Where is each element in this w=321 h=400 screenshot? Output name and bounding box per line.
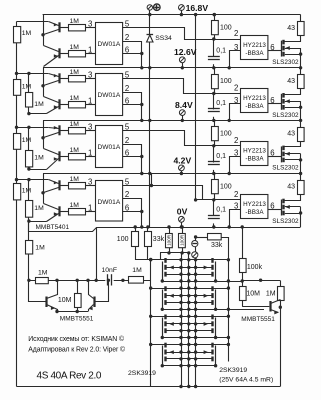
svg-text:2: 2 (234, 29, 238, 38)
resistor 1M divider2 cell2 (26, 93, 33, 108)
wire cell3 bus to next rail (300, 154, 302, 174)
transistor MMBT5401 Q1a (58, 22, 60, 32)
svg-text:3: 3 (234, 43, 238, 52)
svg-text:3: 3 (234, 96, 238, 105)
wire divider2 to 1M row (28, 222, 30, 281)
svg-text:1M: 1M (22, 30, 32, 37)
svg-text:8.4V: 8.4V (175, 100, 193, 110)
svg-text:1M: 1M (35, 245, 45, 252)
svg-text:1: 1 (88, 46, 92, 55)
wire battery stack line (149, 15, 151, 227)
svg-text:-BB3A: -BB3A (245, 209, 264, 216)
resistor 100 cell3 (214, 120, 216, 145)
op-amp U3 DW01A (96, 126, 123, 168)
svg-text:100R: 100R (167, 234, 172, 246)
svg-text:1M: 1M (70, 18, 80, 25)
transistor 2SK3919 row3 right (211, 315, 213, 320)
resistor 1M cs filter (129, 277, 144, 284)
svg-text:0V: 0V (177, 207, 188, 217)
wire DW01A4 pin5 (123, 186, 214, 200)
svg-text:4S 40A Rev 2.0: 4S 40A Rev 2.0 (37, 371, 102, 382)
svg-text:10M: 10M (246, 290, 260, 297)
capacitor 10nF (105, 276, 113, 284)
transistor 2SK3919 row1 right (211, 258, 213, 263)
transistor MMBT5401 Q3b (58, 151, 60, 161)
resistor 43 cell4 (300, 174, 302, 181)
transistor MMBT5401 Q4b (58, 206, 60, 216)
wire gate bus row 4 (162, 365, 215, 367)
transistor 2SK3919 row2 right (211, 286, 213, 291)
svg-text:2: 2 (125, 190, 129, 199)
wire HY2213 pin3 cell2 (230, 104, 241, 121)
resistor 10M right (242, 282, 244, 307)
wire B+ to node A4 (195, 15, 197, 200)
svg-text:1M: 1M (132, 267, 142, 274)
wire second divider column (28, 74, 30, 114)
resistor 100 discharge gate (136, 228, 151, 260)
op-amp U2 DW01A (96, 74, 123, 116)
transistor SLS2302 cell4 (281, 200, 283, 216)
svg-text:6: 6 (125, 204, 129, 213)
transistor 2SK3919 row2 left (164, 286, 166, 291)
resistor 33k charge-gate (194, 235, 197, 238)
transistor MMBT5551 right (242, 306, 269, 308)
wire node A4 horizontal (196, 199, 214, 201)
resistor 33k discharge gate (147, 228, 149, 260)
terminal B+ (154, 4, 161, 11)
svg-text:-BB3A: -BB3A (245, 156, 264, 163)
resistor 100R gate row b (182, 227, 184, 253)
transistor MMBT5401 Q2a (58, 73, 60, 83)
transistor MMBT5551 left (29, 281, 46, 302)
svg-text:HY2213: HY2213 (243, 95, 266, 102)
wire DW01A2 pin2/pin6 junction (123, 93, 142, 121)
wire source bus left (181, 253, 183, 387)
svg-text:6: 6 (125, 149, 129, 158)
svg-text:6: 6 (125, 97, 129, 106)
svg-text:1M: 1M (34, 155, 44, 162)
wire 4.2V to DW01A4 vcc (151, 174, 153, 186)
wire 16.8V top rail (43, 14, 301, 16)
svg-text:3: 3 (234, 202, 238, 211)
wire gate resistor bottom bus (160, 252, 189, 254)
wire 0V elbow down (96, 228, 98, 281)
wire row 3 source lead (167, 323, 212, 325)
svg-text:100: 100 (220, 25, 232, 32)
svg-text:5: 5 (125, 20, 130, 29)
svg-text:-BB3A: -BB3A (245, 50, 264, 57)
resistor 1M base Q4a (85, 185, 95, 187)
wire row 2 source lead (167, 295, 212, 297)
wire row 4 source lead (167, 352, 212, 354)
wire drain bus right (228, 261, 230, 362)
svg-text:100: 100 (117, 236, 129, 243)
wire cell1 bus to next rail (300, 48, 302, 68)
svg-text:0,1: 0,1 (216, 100, 226, 107)
svg-text:0,1: 0,1 (216, 207, 226, 214)
svg-text:2: 2 (125, 33, 129, 42)
wire cell2 bus to next rail (300, 101, 302, 120)
resistor 100R gate row a (169, 227, 171, 253)
svg-text:6: 6 (125, 46, 129, 55)
transistor MMBT5401 Q1b (58, 48, 60, 58)
svg-text:6: 6 (270, 149, 274, 158)
svg-text:SLS2302: SLS2302 (272, 165, 299, 172)
wire HY2213 pin6 cell4 (268, 209, 281, 211)
wire divider2 segment cell3 (28, 128, 30, 170)
svg-text:100: 100 (220, 130, 232, 137)
svg-text:Исходник схемы от: KSIMAN ©: Исходник схемы от: KSIMAN © (28, 335, 124, 343)
wire row 1 source lead (167, 267, 212, 269)
svg-text:1M: 1M (70, 121, 80, 128)
transistor MMBT5401 Q3a (58, 125, 60, 135)
resistor 1M cell3 divider (14, 134, 21, 150)
transistor MMBT5401 Q4a (58, 180, 60, 190)
wire HY2213 pin6 cell1 (268, 50, 281, 52)
wire collector line group 4 (43, 174, 45, 204)
resistor 43 cell1 (300, 15, 302, 22)
resistor 1M bottom left (36, 278, 49, 284)
svg-text:2SK3919: 2SK3919 (219, 367, 247, 374)
svg-text:SLS2302: SLS2302 (272, 112, 299, 119)
resistor 43 cell2 (300, 68, 302, 75)
svg-text:5: 5 (125, 71, 130, 80)
wire DW01A3 pin2/pin6 junction (123, 145, 142, 174)
svg-text:SS34: SS34 (155, 35, 172, 42)
wire source bus right (188, 253, 190, 387)
svg-text:3: 3 (88, 178, 92, 187)
balancer U8 HY2213-BB3A (214, 199, 241, 201)
svg-text:1M: 1M (22, 83, 32, 90)
svg-text:1M: 1M (70, 147, 80, 154)
svg-text:100R: 100R (180, 234, 185, 246)
svg-text:HY2213: HY2213 (243, 148, 266, 155)
op-amp U1 DW01A (96, 23, 123, 65)
wire 1M row (29, 280, 151, 282)
svg-text:10nF: 10nF (102, 267, 118, 274)
svg-text:3: 3 (88, 20, 92, 29)
wire 4.2V rail (43, 173, 301, 175)
resistor 1M base Q2b (85, 104, 95, 106)
wire left B+ sense column (16, 22, 18, 387)
svg-text:1M: 1M (70, 202, 80, 209)
resistor 1M base Q2a (85, 78, 95, 80)
terminal 12.6V (179, 57, 185, 63)
wire B- bottom (17, 386, 281, 388)
terminal 16.8V (179, 5, 185, 11)
svg-text:-BB3A: -BB3A (245, 103, 264, 110)
svg-text:1M: 1M (266, 290, 276, 297)
wire row 3 lower lead (167, 330, 212, 332)
svg-text:100k: 100k (247, 264, 263, 271)
svg-text:6: 6 (270, 96, 274, 105)
svg-text:HY2213: HY2213 (243, 201, 266, 208)
op-amp U4 DW01A (96, 181, 123, 222)
svg-text:SLS2302: SLS2302 (272, 218, 299, 225)
svg-text:1M: 1M (70, 44, 80, 51)
svg-text:16.8V: 16.8V (186, 3, 209, 13)
wire HY2213 pin3 cell1 (230, 51, 241, 68)
svg-text:MMBT5551: MMBT5551 (60, 315, 94, 322)
svg-text:3: 3 (234, 149, 238, 158)
svg-text:3: 3 (88, 123, 92, 132)
wire P- bus (195, 238, 197, 387)
wire DW01A2 pin5 (123, 79, 214, 94)
svg-text:5: 5 (125, 178, 130, 187)
svg-text:MMBT5551: MMBT5551 (241, 316, 275, 323)
svg-text:DW01A: DW01A (98, 41, 121, 48)
resistor 1M cell2 divider (14, 80, 21, 96)
balancer U7 HY2213-BB3A (214, 145, 241, 147)
resistor 1M base Q1b (85, 53, 95, 55)
wire collector line group 3 (43, 121, 45, 149)
svg-text:1: 1 (88, 204, 92, 213)
wire HY2213 pin6 cell3 (268, 156, 281, 158)
resistor 1M right (280, 281, 282, 387)
wire 8.4V rail (43, 120, 301, 122)
resistor 1M divider2 cell4 (26, 201, 33, 218)
svg-text:1: 1 (88, 149, 92, 158)
resistor 100 cell4 (214, 174, 216, 200)
svg-text:2: 2 (125, 136, 129, 145)
svg-text:3: 3 (88, 71, 92, 80)
svg-text:1M: 1M (70, 95, 80, 102)
svg-text:6: 6 (270, 202, 274, 211)
transistor MMBT5551 mirror (95, 281, 109, 302)
wire collector line group 2 (43, 68, 45, 97)
wire row 3 top lead (151, 316, 229, 318)
wire divider2 segment cell4 (28, 180, 30, 222)
wire B- left bus (150, 260, 152, 387)
diode SS34 (146, 35, 153, 42)
svg-text:(25V 64A 4.5 mR): (25V 64A 4.5 mR) (219, 377, 273, 384)
resistor 1M cell1 top divider (14, 27, 21, 43)
balancer U6 HY2213-BB3A (214, 93, 241, 95)
terminal pack plus pad (147, 5, 152, 10)
svg-text:MMBT5401: MMBT5401 (36, 224, 70, 231)
capacitor 0,1 cell3 (212, 144, 215, 147)
wire collector line group 1 (43, 15, 45, 46)
wire DW01A4 pin2/pin6 junction (123, 199, 142, 228)
wire gate bus row 2 (162, 309, 264, 311)
svg-text:SLS2302: SLS2302 (272, 59, 299, 66)
svg-text:1M: 1M (22, 137, 32, 144)
svg-text:43: 43 (287, 184, 295, 191)
resistor 1M base Q1a (85, 27, 95, 29)
wire B+ to Q1a emitter (17, 21, 49, 23)
terminal C- (192, 252, 198, 258)
svg-text:100: 100 (220, 78, 232, 85)
svg-text:Адаптировал к Rev 2.0: Viper ©: Адаптировал к Rev 2.0: Viper © (28, 345, 125, 353)
svg-text:100: 100 (220, 184, 232, 191)
resistor 100k (242, 228, 244, 282)
resistor 10M left (77, 281, 79, 312)
wire HY2213 pin3 cell3 (230, 157, 241, 174)
wire emitter row (57, 311, 88, 313)
terminal 0V (179, 216, 185, 222)
svg-text:1M: 1M (70, 69, 80, 76)
wire HY2213 pin6 cell2 (268, 103, 281, 105)
svg-text:43: 43 (287, 78, 295, 85)
capacitor 0,1 cell4 (212, 198, 215, 201)
wire charge pump node (242, 280, 280, 282)
wire HY2213 pin3 cell4 (230, 210, 241, 228)
resistor 1M cell4 divider (14, 184, 21, 200)
wire row 4 top lead (151, 344, 229, 346)
resistor 1M base Q3b (85, 156, 95, 158)
svg-text:1M: 1M (34, 205, 44, 212)
wire 12.6V sense tap (17, 73, 49, 75)
svg-text:1M: 1M (38, 269, 48, 276)
balancer U5 HY2213-BB3A (214, 39, 241, 41)
transistor 2SK3919 row4 left (164, 343, 166, 348)
svg-text:33k: 33k (211, 242, 223, 249)
terminal 4.2V (179, 165, 185, 171)
svg-text:2: 2 (234, 136, 238, 145)
wire 4.2V sense tap (17, 179, 49, 181)
svg-text:1M: 1M (70, 176, 80, 183)
resistor 1M divider2 bottom (26, 241, 33, 255)
svg-text:4.2V: 4.2V (174, 155, 192, 165)
svg-text:DW01A: DW01A (98, 199, 121, 206)
wire DW01A1 pin5 (123, 28, 214, 40)
resistor 100 cell1 (214, 15, 216, 39)
resistor 1M divider2 cell3 (26, 151, 33, 167)
resistor 1M base Q4b (85, 211, 95, 213)
svg-text:1M: 1M (34, 101, 44, 108)
wire DW01A3 pin5 (123, 131, 214, 146)
wire 12.6V rail (43, 67, 301, 69)
svg-text:43: 43 (287, 131, 295, 138)
svg-text:DW01A: DW01A (98, 144, 121, 151)
svg-text:1M: 1M (22, 188, 32, 195)
svg-text:2: 2 (125, 84, 129, 93)
transistor MMBT5401 Q2b (58, 99, 60, 109)
wire gate bus row 1 (162, 281, 242, 283)
transistor SLS2302 cell3 (281, 146, 283, 162)
svg-text:12.6V: 12.6V (174, 47, 197, 57)
svg-text:HY2213: HY2213 (243, 42, 266, 49)
terminal 8.4V (179, 110, 185, 116)
transistor 2SK3919 row1 left (164, 258, 166, 263)
svg-text:DW01A: DW01A (98, 92, 121, 99)
transistor SLS2302 cell1 (281, 41, 283, 57)
wire row 2 lower lead (167, 302, 212, 304)
wire cell4 bus to next rail (300, 207, 302, 227)
capacitor 0,1 cell2 (212, 92, 215, 95)
transistor SLS2302 cell2 (281, 94, 283, 110)
svg-text:0,1: 0,1 (216, 153, 226, 160)
svg-text:2: 2 (234, 190, 238, 199)
resistor 43 cell3 (300, 120, 302, 127)
wire row 1 lower lead (167, 274, 212, 276)
resistor 1M base Q3a (85, 130, 95, 132)
svg-text:0,1: 0,1 (216, 48, 226, 55)
wire row 4 lower lead (167, 358, 212, 360)
capacitor 0,1 cell1 (212, 37, 215, 40)
svg-text:43: 43 (287, 25, 295, 32)
resistor 100 cell2 (214, 68, 216, 94)
wire 8.4V sense tap (17, 127, 49, 129)
wire DW01A1 pin2/pin6 junction (123, 42, 142, 68)
wire row 2 top lead (151, 288, 229, 290)
wire gate bus row 3 (162, 337, 228, 339)
wire row 1 top lead (151, 259, 229, 261)
svg-text:1: 1 (88, 97, 92, 106)
svg-text:2SK3919: 2SK3919 (128, 370, 156, 377)
wire 0V rail (29, 222, 301, 232)
transistor 2SK3919 row4 right (211, 343, 213, 348)
svg-text:6: 6 (270, 43, 274, 52)
transistor 2SK3919 row3 left (164, 315, 166, 320)
svg-text:5: 5 (125, 123, 130, 132)
svg-text:10M: 10M (58, 297, 72, 304)
svg-text:2: 2 (234, 84, 238, 93)
svg-text:33k: 33k (153, 236, 165, 243)
